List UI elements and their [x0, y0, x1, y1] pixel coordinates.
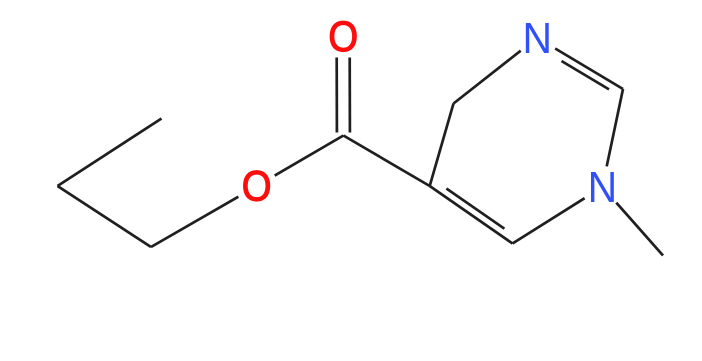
double bond C6=C5 inner — [446, 189, 504, 229]
svg-text:N: N — [588, 163, 618, 211]
bond CH2-CH3 — [58, 119, 162, 187]
svg-text:O: O — [328, 12, 358, 60]
double bond N3=C2 main — [555, 49, 623, 90]
bond C(=O)-C5 — [343, 136, 429, 187]
svg-text:N: N — [522, 14, 552, 62]
bond C5-C4 — [430, 104, 454, 187]
bond C4-N3 — [454, 51, 521, 104]
double bond C6=C5 main — [430, 186, 513, 244]
double bond N3=C2 inner — [562, 61, 610, 89]
double bond C=O line1 — [335, 58, 338, 133]
svg-text:O: O — [242, 162, 272, 210]
bond CH2-O ester — [151, 197, 238, 247]
bond N1-CH3 — [616, 203, 663, 256]
wire bond CH2-CH2 — [58, 186, 152, 247]
bond C2-N1 — [607, 89, 623, 166]
bond O-C carbonyl — [275, 136, 344, 176]
bond N1-C6 — [513, 198, 585, 243]
double bond C=O line2 — [348, 58, 351, 133]
